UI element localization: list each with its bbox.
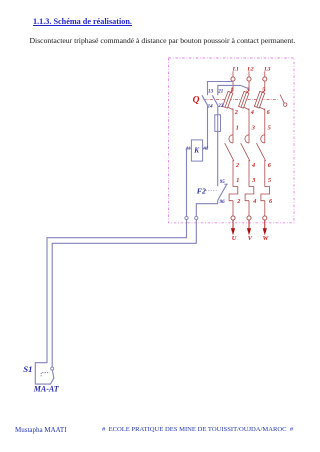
wire L3 stub: [264, 71, 266, 77]
pin 6 of KM1: [268, 162, 272, 169]
wire L2 stub: [248, 71, 250, 77]
svg-text:Q: Q: [193, 96, 200, 106]
svg-text:MA-AT: MA-AT: [33, 384, 60, 393]
wire pole3 top: [264, 81, 266, 91]
wire pole1 top: [232, 81, 234, 91]
wire 14 to coil: [203, 105, 208, 148]
pin 4 of Q: [250, 109, 254, 116]
svg-text:6: 6: [267, 109, 271, 116]
pin 96 of F2: [220, 200, 226, 205]
svg-text:L3: L3: [263, 66, 270, 72]
pin 5 of F2: [268, 177, 271, 184]
wire pole2 lower: [248, 160, 250, 187]
svg-text:14: 14: [208, 105, 214, 110]
pin A2 of K: [202, 146, 208, 151]
coil K: [191, 140, 202, 161]
enclosure dashed border: [169, 58, 295, 223]
terminal L1: [231, 77, 235, 81]
title: [33, 17, 132, 26]
svg-text:5: 5: [268, 177, 271, 184]
footer left: [15, 426, 67, 434]
Q pole3 fuse-switch: [254, 90, 264, 109]
Q aux contact 13-14: [202, 95, 208, 105]
pin 5 of Q: [262, 87, 265, 94]
pin 2 of F2: [236, 198, 240, 205]
thermal element pole2: [245, 187, 254, 201]
control terminal 1: [185, 216, 188, 219]
terminal W: [263, 216, 267, 220]
pin 14 of Q aux: [208, 105, 214, 110]
pin 3 of F2: [251, 177, 255, 184]
svg-text:96: 96: [220, 200, 226, 205]
wire terminal2 to S1: [52, 220, 196, 367]
thermal element pole3: [261, 187, 270, 201]
wire pole1 lower: [232, 160, 234, 187]
terminal V: [247, 216, 251, 220]
wire coil to terminal 1: [187, 148, 192, 216]
wire pole2 top: [248, 81, 250, 91]
svg-text:2: 2: [236, 198, 240, 205]
pin 4 of F2: [252, 198, 256, 205]
wire terminal1 to S1: [35, 220, 186, 385]
svg-text:2: 2: [234, 109, 238, 116]
svg-text:A2: A2: [202, 146, 208, 151]
contactor pole2 contact: [241, 135, 250, 161]
switch S1 latch: [41, 373, 49, 377]
wire fuse to 95: [217, 131, 219, 186]
svg-text:5: 5: [268, 124, 271, 131]
svg-text:2: 2: [235, 162, 239, 169]
arrow V: [247, 220, 251, 235]
svg-text:6: 6: [269, 198, 273, 205]
fuse F1: [215, 115, 221, 132]
wire pole1 middle: [232, 108, 234, 143]
Q pole2 fuse-switch: [239, 90, 249, 109]
pin 1 of KM1: [236, 124, 239, 131]
switch S1 MA-AT label: [33, 384, 60, 393]
node W label: [263, 235, 270, 242]
F2 NC contact: [218, 184, 228, 200]
terminal L3: [263, 77, 267, 81]
wire 96 to terminal 2: [196, 200, 217, 216]
pin 1 of F2: [236, 177, 239, 184]
pin 5 of KM1: [268, 124, 271, 131]
wire control tap from L1: [208, 82, 234, 96]
svg-text:1: 1: [236, 124, 239, 131]
svg-text:13: 13: [208, 90, 214, 95]
wire control tap from L2: [218, 85, 249, 95]
wire pole2 bottom: [248, 201, 250, 217]
relay F2 label: [197, 187, 206, 196]
pin 3 of Q: [245, 87, 249, 94]
pin 6 of Q: [267, 109, 271, 116]
pin 95 of F2: [220, 180, 226, 185]
node L2 label: [246, 66, 253, 72]
svg-text:U: U: [232, 235, 237, 242]
node V label: [248, 235, 253, 242]
svg-text:6: 6: [268, 162, 272, 169]
pin 2 of Q: [234, 109, 238, 116]
svg-text:V: V: [248, 235, 253, 242]
svg-text:4: 4: [251, 162, 255, 169]
pin 4 of KM1: [251, 162, 255, 169]
node L3 label: [263, 66, 270, 72]
svg-text:W: W: [263, 235, 270, 242]
switch S1 blade: [51, 370, 54, 384]
node L1 label: [232, 66, 239, 72]
wire L1 stub: [232, 71, 234, 77]
arrow U: [231, 220, 235, 235]
Q aux contact 21-22: [212, 95, 218, 105]
disconnector Q label: [193, 96, 200, 106]
svg-text:F2: F2: [197, 187, 206, 196]
svg-text:4: 4: [252, 198, 256, 205]
switch S1 label: [23, 364, 32, 374]
thermal element pole1: [229, 187, 238, 201]
terminal U: [231, 216, 235, 220]
wire pole1 bottom: [232, 201, 234, 217]
Q pole1 fuse-switch: [223, 90, 233, 109]
wire pole3 lower: [264, 160, 266, 187]
wire pole2 middle: [248, 108, 250, 143]
Q mechanical linkage dash-dot: [204, 99, 280, 101]
control terminal 2: [195, 216, 198, 219]
paragraph: [30, 36, 296, 45]
switch S1 terminal: [51, 367, 54, 370]
Q handle: [280, 95, 287, 107]
svg-text:3: 3: [251, 177, 255, 184]
pin 22 of Q aux: [217, 104, 224, 109]
svg-text:S1: S1: [23, 364, 32, 374]
pin 6 of F2: [269, 198, 273, 205]
contactor pole1 contact: [225, 135, 234, 161]
terminal L2: [247, 77, 251, 81]
pin 3 of KM1: [251, 124, 255, 131]
wire 22 to fuse: [217, 105, 219, 115]
node U label: [232, 235, 237, 242]
arrow W: [263, 220, 267, 235]
pin A1 of K: [185, 146, 191, 151]
wire pole3 bottom: [264, 201, 266, 217]
pin 21 of Q aux: [217, 90, 223, 95]
F2 link dots: [206, 190, 218, 192]
svg-text:1: 1: [236, 177, 239, 184]
svg-text:3: 3: [251, 124, 255, 131]
svg-text:L2: L2: [246, 66, 253, 72]
pin 1 of Q: [230, 87, 233, 94]
contactor pole3 contact: [257, 135, 266, 161]
wire pole3 middle: [264, 108, 266, 143]
footer right: [102, 426, 293, 433]
pin 2 of KM1: [235, 162, 239, 169]
svg-text:21: 21: [217, 90, 223, 95]
pin 13 of Q aux: [208, 90, 214, 95]
svg-text:4: 4: [250, 109, 254, 116]
